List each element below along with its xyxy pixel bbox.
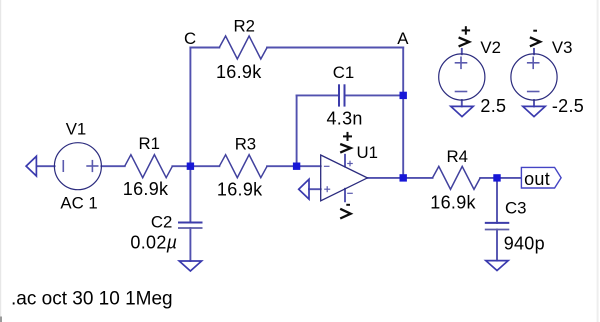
svg-text:C2: C2: [151, 212, 172, 231]
svg-text:C1: C1: [333, 63, 354, 82]
svg-text:940p: 940p: [504, 233, 545, 253]
svg-text:.ac oct 30 10 1Meg: .ac oct 30 10 1Meg: [11, 288, 173, 309]
svg-text:16.9k: 16.9k: [217, 179, 263, 199]
svg-text:V3: V3: [552, 38, 573, 57]
svg-text:C3: C3: [505, 199, 526, 218]
svg-text:AC 1: AC 1: [60, 194, 97, 213]
svg-text:V1: V1: [66, 120, 87, 139]
svg-text:2.5: 2.5: [480, 96, 506, 116]
svg-text:V2: V2: [480, 38, 501, 57]
svg-text:0.02µ: 0.02µ: [130, 233, 177, 253]
svg-text:A: A: [397, 29, 409, 48]
svg-text:C: C: [184, 29, 196, 48]
svg-text:R4: R4: [447, 147, 468, 166]
svg-text:R3: R3: [235, 134, 256, 153]
svg-text:U1: U1: [357, 143, 378, 162]
svg-text:16.9k: 16.9k: [216, 62, 262, 82]
svg-text:16.9k: 16.9k: [123, 179, 169, 199]
svg-text:R1: R1: [139, 134, 160, 153]
svg-text:R2: R2: [234, 17, 255, 36]
svg-text:out: out: [524, 169, 550, 189]
svg-text:4.3n: 4.3n: [327, 108, 363, 128]
svg-text:16.9k: 16.9k: [430, 192, 476, 212]
svg-text:-2.5: -2.5: [552, 96, 584, 116]
